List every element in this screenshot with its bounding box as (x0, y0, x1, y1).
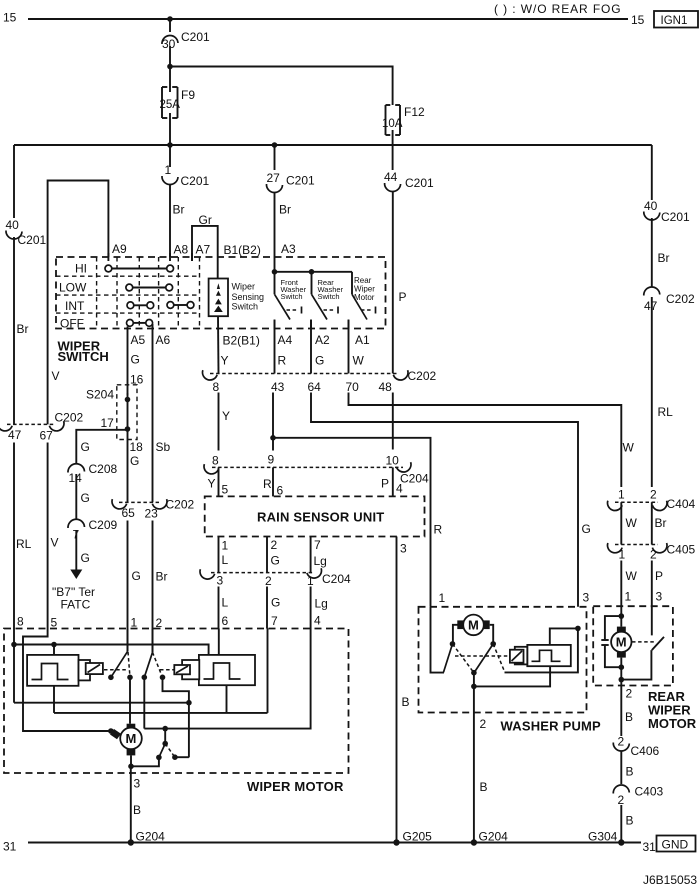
wire G to FATC arrow (75, 530, 77, 570)
svg-text:3: 3 (656, 590, 663, 604)
park tap junction (162, 726, 168, 732)
svg-text:G: G (81, 440, 90, 454)
contact LOW right (166, 284, 173, 291)
park open contact wire (175, 756, 189, 758)
contact INT d (187, 302, 194, 309)
svg-text:Switch: Switch (281, 292, 303, 301)
bridge OFF (133, 322, 146, 324)
bridge LOW (133, 287, 166, 289)
pin 2 wire to switch apex (152, 629, 154, 653)
washer pump dashed box (419, 607, 587, 713)
svg-text:MOTOR: MOTOR (648, 716, 697, 731)
right relay tab (182, 660, 199, 679)
junction rail/F9 (167, 142, 173, 148)
bridge INT ab (134, 304, 147, 306)
svg-text:Lg: Lg (314, 554, 327, 568)
terminal A9 tick (107, 253, 109, 261)
svg-text:W: W (626, 569, 638, 583)
svg-text:B: B (133, 803, 141, 817)
rear park switch blade (652, 637, 664, 650)
svg-text:67: 67 (40, 429, 54, 443)
pin 4 wire Lg (144, 629, 310, 729)
connector C208 pin 14 (68, 464, 85, 473)
splice S204 (86, 373, 144, 440)
washer left blade solid (444, 644, 453, 672)
svg-text:Y: Y (221, 354, 229, 368)
wire Br right (651, 218, 653, 287)
link coil to switch1 dashed (104, 669, 126, 671)
svg-text:Sb: Sb (156, 440, 171, 454)
svg-text:Wiper: Wiper (232, 282, 256, 292)
rear motor top brush (617, 627, 626, 633)
washer pulse box (527, 645, 571, 666)
pin 1 wire to switch apex (127, 629, 129, 652)
svg-text:25A: 25A (160, 99, 181, 111)
wire Y C202-8 to C204-8 (218, 393, 220, 451)
svg-text:1: 1 (625, 590, 632, 604)
washer right blade dashed (493, 644, 504, 672)
svg-text:C201: C201 (18, 233, 47, 247)
left relay coil (86, 663, 103, 674)
wire 40-C201 down Br (13, 237, 15, 424)
svg-text:47: 47 (8, 428, 22, 442)
svg-text:3: 3 (134, 777, 141, 791)
svg-text:Sensing: Sensing (232, 292, 265, 302)
svg-text:B: B (626, 765, 634, 779)
wire W C202-70 to C404 (349, 393, 622, 488)
contact INT b (147, 302, 154, 309)
junction R branch (270, 435, 276, 441)
wire RL right (651, 297, 653, 487)
rear motor M (611, 632, 631, 652)
connector C201 pin 30 (162, 35, 178, 44)
svg-text:2: 2 (480, 717, 487, 731)
wire A2 down (310, 320, 312, 374)
washer motor right brush wire (490, 625, 494, 644)
left pulse box (27, 655, 78, 686)
wire Br to A8 (169, 184, 171, 257)
wire C201-27 from rail (274, 145, 276, 170)
svg-text:6: 6 (222, 614, 229, 628)
connector C202 pin 47 right (644, 287, 660, 296)
washer pump pin1 wire to switch (431, 607, 445, 673)
svg-text:5: 5 (51, 616, 58, 630)
rear motor capacitor bracket (605, 616, 621, 639)
wire Y into rain sensor (218, 467, 220, 496)
svg-text:Lg: Lg (315, 597, 328, 611)
svg-text:7: 7 (314, 538, 321, 552)
junction rail/27 (272, 142, 278, 148)
left relay tab (79, 660, 91, 680)
svg-text:40: 40 (644, 199, 658, 213)
svg-text:65: 65 (122, 506, 136, 520)
svg-text:2: 2 (650, 548, 657, 562)
svg-text:C204: C204 (400, 472, 429, 486)
contact HI left (105, 265, 112, 272)
washer open contact wire to pin3 (505, 628, 578, 672)
washer switch right pivot (490, 641, 496, 647)
feed hline 644 (14, 645, 209, 655)
wire A5 through S204 (127, 393, 129, 502)
junction pulse top tap (51, 642, 57, 648)
junction on bus 15 (167, 16, 173, 22)
svg-text:RAIN SENSOR UNIT: RAIN SENSOR UNIT (257, 510, 384, 525)
svg-text:W: W (353, 354, 365, 368)
junction below C201-30 (167, 64, 173, 70)
svg-text:43: 43 (271, 380, 285, 394)
svg-text:30: 30 (162, 37, 176, 51)
svg-text:L: L (222, 596, 229, 610)
wire branch 17 to C208 (76, 430, 127, 464)
svg-text:RL: RL (658, 405, 674, 419)
rain sensor pin7 wire Lg (310, 537, 312, 573)
switch1 solid blade (111, 652, 128, 678)
svg-text:2: 2 (265, 574, 272, 588)
svg-text:W: W (623, 441, 635, 455)
svg-text:15: 15 (631, 13, 645, 27)
park dashed blade (165, 744, 175, 758)
svg-text:1: 1 (618, 488, 625, 502)
vline 144.3 (143, 677, 145, 728)
svg-text:L: L (222, 553, 229, 567)
svg-text:V: V (51, 536, 59, 550)
svg-text:A1: A1 (355, 333, 370, 347)
svg-text:GND: GND (662, 838, 689, 852)
wire A4 down (274, 320, 276, 374)
svg-text:48: 48 (379, 380, 393, 394)
junction motor left (108, 728, 114, 734)
svg-text:C202: C202 (666, 292, 695, 306)
wire B to C403 (620, 751, 622, 784)
right relay coil (174, 665, 190, 674)
wiper motor left brush diagonal (110, 729, 121, 739)
rear motor bottom brush (617, 652, 626, 658)
svg-text:A3: A3 (281, 242, 296, 256)
wire F9 to rail (169, 113, 171, 145)
svg-text:J6B15053: J6B15053 (643, 873, 697, 887)
contact OFF left (126, 320, 133, 327)
wire R branch to washer pump (273, 438, 431, 607)
svg-text:C209: C209 (89, 518, 118, 532)
svg-text:2: 2 (618, 735, 625, 749)
connector C202 main row (201, 369, 437, 394)
svg-text:40: 40 (6, 218, 20, 232)
svg-text:1: 1 (619, 548, 626, 562)
node IGN1 box (654, 11, 698, 28)
grid divider 6 (199, 257, 201, 329)
connector C403 pin 2 (613, 785, 629, 794)
wire washer feed (275, 271, 353, 273)
contact INT a (127, 302, 134, 309)
svg-text:Br: Br (156, 570, 168, 584)
svg-text:7: 7 (271, 614, 278, 628)
wire P C202-48 to C204-10 (392, 393, 394, 450)
svg-text:A7: A7 (196, 243, 211, 257)
wire B to G304 (620, 805, 622, 843)
rear motor pin2 wire B (620, 680, 622, 736)
rear motor wires (620, 616, 622, 627)
rain sensor unit box (205, 496, 425, 536)
contact HI right (167, 265, 174, 272)
svg-text:WIPER MOTOR: WIPER MOTOR (247, 779, 344, 794)
svg-text:F9: F9 (181, 88, 195, 102)
wire A1 down (348, 320, 350, 374)
svg-text:2: 2 (271, 538, 278, 552)
svg-text:C406: C406 (631, 744, 660, 758)
svg-text:47: 47 (644, 299, 658, 313)
svg-text:Y: Y (208, 477, 216, 491)
pin 6 wire L into pulse box (218, 629, 220, 655)
wire C201-1 from rail (169, 145, 171, 167)
svg-text:3: 3 (217, 574, 224, 588)
svg-text:Switch: Switch (232, 302, 259, 312)
svg-text:INT: INT (65, 299, 85, 313)
wire V to pin 5 (47, 443, 49, 629)
svg-text:WASHER PUMP: WASHER PUMP (501, 719, 602, 734)
svg-text:C404: C404 (667, 497, 696, 511)
capacitor plates (601, 639, 608, 641)
connector C202 row (65/23) (110, 498, 194, 521)
grid row line 1 (56, 275, 200, 277)
motor top brush wire (129, 677, 131, 723)
wire from bus to C201-30 (169, 19, 171, 32)
svg-text:A5: A5 (131, 333, 146, 347)
svg-text:8: 8 (212, 454, 219, 468)
junction 188.9/702.4 (186, 700, 192, 706)
connector C405 row (606, 543, 696, 562)
svg-text:RL: RL (16, 537, 32, 551)
svg-text:G204: G204 (136, 830, 166, 844)
washer motor left brush (457, 620, 464, 629)
svg-text:( ) : W/O REAR FOG: ( ) : W/O REAR FOG (494, 2, 622, 16)
ground G204 right (471, 839, 477, 845)
svg-text:C204: C204 (322, 572, 351, 586)
connector C204 bottom row (198, 568, 351, 588)
svg-text:C201: C201 (286, 174, 315, 188)
svg-text:B2(B1): B2(B1) (223, 334, 260, 348)
junction pin8 (11, 642, 17, 648)
svg-text:8: 8 (213, 380, 220, 394)
svg-text:3: 3 (400, 542, 407, 556)
wiper motor bottom brush (127, 749, 136, 755)
svg-text:C202: C202 (55, 411, 84, 425)
svg-text:P: P (655, 569, 663, 583)
switch2 dashed blade (153, 652, 163, 677)
wire rail right end down (651, 145, 653, 200)
svg-text:C201: C201 (181, 174, 210, 188)
svg-text:5: 5 (222, 483, 229, 497)
svg-text:G: G (315, 354, 324, 368)
svg-text:44: 44 (384, 170, 398, 184)
switch1 dashed blade (128, 652, 130, 677)
svg-text:A4: A4 (278, 333, 293, 347)
svg-text:1: 1 (131, 616, 138, 630)
svg-text:23: 23 (145, 507, 159, 521)
svg-text:G205: G205 (403, 830, 433, 844)
svg-text:HI: HI (75, 262, 87, 276)
contact LOW left (126, 284, 133, 291)
svg-text:FATC: FATC (61, 598, 91, 612)
park solid blade (159, 744, 165, 758)
connector C204 top row (202, 453, 429, 486)
svg-text:1: 1 (165, 163, 172, 177)
svg-text:A6: A6 (156, 333, 171, 347)
wire F12 down to C201-44 (392, 130, 394, 170)
svg-text:SWITCH: SWITCH (58, 349, 109, 364)
washer pump motor (463, 615, 484, 636)
svg-text:6: 6 (277, 484, 284, 498)
pin 8 wire into box (13, 629, 15, 703)
svg-text:4: 4 (396, 482, 403, 496)
svg-text:Br: Br (17, 322, 29, 336)
wiper motor dashed box (4, 629, 349, 774)
svg-text:OFF: OFF (60, 317, 84, 331)
wire B2 from sensing switch down (217, 316, 220, 373)
svg-text:R: R (434, 523, 443, 537)
wire P from C201-44 to C202-48 (392, 191, 394, 374)
grid divider 2 (116, 257, 118, 329)
svg-text:Motor: Motor (354, 293, 375, 302)
washer pulse wave (532, 650, 561, 661)
wire G to C209 (75, 474, 77, 519)
wire rail 145 (14, 144, 652, 146)
svg-text:A9: A9 (112, 242, 127, 256)
svg-text:R: R (263, 477, 272, 491)
washer mech link dashed (455, 655, 510, 657)
svg-text:C403: C403 (635, 785, 664, 799)
right pulse wave (204, 663, 241, 679)
svg-text:W: W (626, 516, 638, 530)
svg-text:9: 9 (268, 453, 275, 467)
front washer switch (275, 272, 302, 329)
right pulse bottom tap (226, 685, 228, 713)
svg-text:14: 14 (69, 471, 83, 485)
svg-text:G204: G204 (479, 830, 509, 844)
svg-text:C201: C201 (661, 210, 690, 224)
washer relay coil (510, 650, 524, 663)
svg-text:G: G (81, 551, 90, 565)
left pulse wave (32, 664, 69, 680)
wiper switch big dashed box (56, 257, 386, 329)
svg-text:Br: Br (279, 203, 291, 217)
svg-text:M: M (616, 635, 627, 650)
terminal A6 wire (152, 324, 154, 502)
rain sensor pin1 wire L (218, 537, 220, 573)
svg-text:C201: C201 (181, 30, 210, 44)
hline 712.9 (54, 712, 268, 714)
svg-text:M: M (126, 731, 137, 746)
park common stub (164, 729, 166, 744)
motor bottom wire (130, 755, 132, 766)
washer left blade dashed (453, 644, 474, 672)
ground G205 (393, 839, 399, 845)
svg-text:G304: G304 (588, 830, 618, 844)
contact OFF right (146, 320, 153, 327)
grid divider 4 (158, 257, 160, 329)
svg-text:27: 27 (267, 171, 281, 185)
svg-text:2: 2 (626, 687, 633, 701)
svg-text:C405: C405 (667, 543, 696, 557)
arrow to FATC (70, 570, 82, 580)
svg-text:Gr: Gr (199, 213, 212, 227)
svg-text:B: B (626, 814, 634, 828)
switch2 solid blade (144, 652, 152, 677)
wire G C202-64 to washer pump pin3 (311, 393, 578, 607)
grid divider 5 (177, 257, 179, 329)
switch2 contacts (142, 675, 148, 681)
wire junction to fuse F9 (169, 67, 171, 93)
connector C209 pin 7 (68, 519, 85, 528)
svg-text:B1(B2): B1(B2) (224, 243, 261, 257)
svg-text:LOW: LOW (59, 281, 87, 295)
svg-text:1: 1 (307, 574, 314, 588)
svg-text:P: P (381, 477, 389, 491)
right pulse box (199, 655, 255, 685)
svg-text:C202: C202 (408, 369, 437, 383)
wiper motor M (120, 728, 142, 750)
rain sensor pin3 wire B (396, 537, 398, 843)
svg-text:C201: C201 (405, 176, 434, 190)
wire Br to wiper motor pin2 (152, 521, 154, 653)
left pulse top tap (53, 645, 55, 655)
svg-text:A8: A8 (174, 243, 189, 257)
rear motor pin1 junction (619, 613, 625, 619)
ground G204 left (128, 839, 134, 845)
wire R C202-43 down (272, 393, 274, 451)
wire bus 15 (28, 18, 628, 20)
svg-text:18: 18 (130, 440, 144, 454)
svg-text:Br: Br (658, 251, 670, 265)
svg-text:64: 64 (308, 380, 322, 394)
connector C202 row left (47/67) (0, 411, 84, 443)
rain sensor pin2 wire G (266, 537, 268, 573)
svg-text:R: R (278, 354, 287, 368)
svg-text:2: 2 (618, 793, 625, 807)
svg-text:S204: S204 (86, 388, 114, 402)
svg-text:F12: F12 (404, 105, 425, 119)
jumper Gr A7 to B1 (192, 226, 218, 279)
svg-text:C208: C208 (89, 462, 118, 476)
svg-text:1: 1 (222, 539, 229, 553)
svg-text:IGN1: IGN1 (661, 15, 688, 27)
rear motor to park contact (621, 650, 651, 680)
svg-text:31: 31 (643, 840, 657, 854)
junction A3 feed (272, 269, 278, 275)
svg-text:V: V (52, 369, 60, 383)
svg-text:70: 70 (346, 380, 360, 394)
ground G304 (618, 839, 624, 845)
svg-text:4: 4 (314, 614, 321, 628)
contact INT c (167, 302, 174, 309)
wire R into rain sensor (272, 467, 274, 496)
svg-text:31: 31 (3, 840, 17, 854)
rear park mech dashed (632, 641, 655, 643)
washer switch left pivot (450, 641, 456, 647)
fuse F12 10A (382, 105, 425, 135)
rear wiper motor switch (349, 272, 376, 329)
washer pump pin2 wire B (473, 686, 475, 842)
svg-text:8: 8 (17, 615, 24, 629)
svg-text:3: 3 (583, 591, 590, 605)
svg-text:Br: Br (173, 203, 185, 217)
svg-text:G: G (132, 569, 141, 583)
svg-text:2: 2 (650, 488, 657, 502)
washer motor left brush wire (453, 625, 458, 644)
connector C404 row (606, 488, 696, 513)
link coil2 to switch2 dashed (160, 669, 174, 671)
pin 7 wire G (267, 629, 269, 713)
washer pin3 to pulse box (550, 628, 578, 645)
